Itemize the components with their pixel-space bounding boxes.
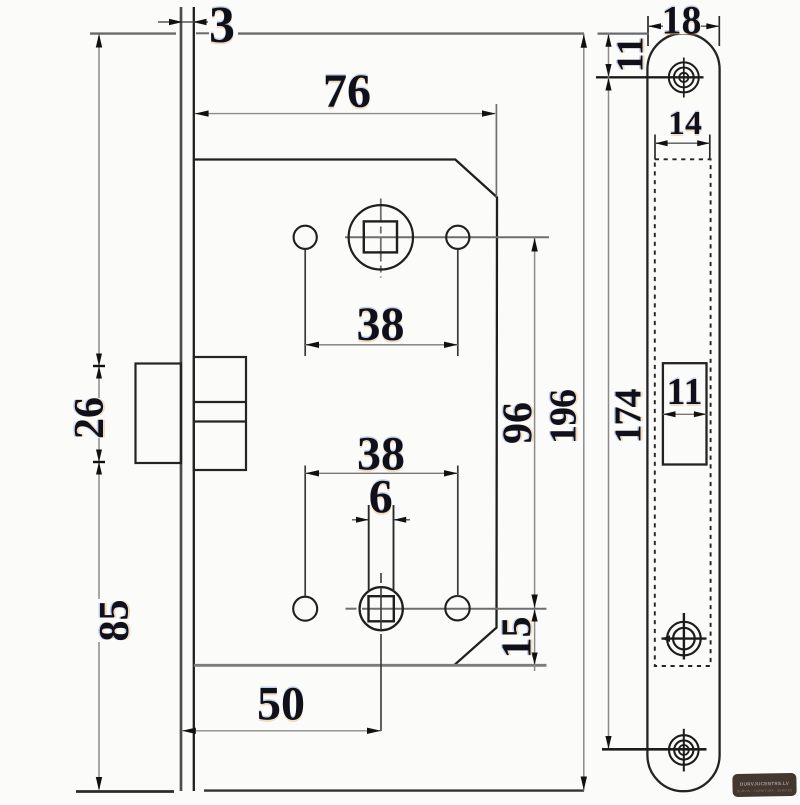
svg-text:38: 38 <box>357 298 405 351</box>
svg-text:6: 6 <box>369 471 393 524</box>
dimension 76 <box>195 65 497 197</box>
svg-text:174: 174 <box>608 389 650 444</box>
lower left hole <box>293 597 317 621</box>
dimension 14 <box>655 105 710 160</box>
upper holes centerline <box>345 199 549 278</box>
dimension 15 <box>495 609 541 671</box>
wc axis / 50 extension line <box>380 573 382 731</box>
lower 38 dimension <box>305 428 458 598</box>
upper left hole <box>294 226 317 249</box>
svg-text:50: 50 <box>257 678 305 731</box>
spindle square hole <box>364 221 397 252</box>
svg-text:76: 76 <box>323 65 371 118</box>
dimension 196 line <box>543 34 588 791</box>
svg-text:85: 85 <box>92 600 138 642</box>
svg-text:26: 26 <box>67 397 113 439</box>
svg-text:DURVJUCENTRS.LV: DURVJUCENTRS.LV <box>740 781 790 787</box>
dimension 6 <box>352 471 410 592</box>
top extension for 11 <box>598 32 649 34</box>
dimension 3 (faceplate thickness) <box>158 0 235 54</box>
faceplate front view <box>647 33 719 791</box>
svg-text:15: 15 <box>495 617 541 659</box>
faceplate dashed case outline <box>655 159 711 666</box>
dimension 174 line <box>602 77 707 749</box>
lower right hole <box>445 596 469 620</box>
svg-text:96: 96 <box>496 402 542 444</box>
dimension 18 <box>648 0 719 46</box>
dimension 11 (top) line <box>605 34 651 78</box>
dimension 50 <box>182 678 381 735</box>
label 85 <box>92 599 138 642</box>
top screw hole <box>596 58 704 98</box>
dimension 11 (latch window) <box>663 371 707 417</box>
lower holes centerline <box>346 608 547 610</box>
wc square hole <box>369 596 394 621</box>
latch bolt (protruding) <box>136 364 182 464</box>
dimension 96 line <box>496 237 542 608</box>
bottom extension line <box>76 789 584 793</box>
faceplate edge view <box>181 7 194 791</box>
middle screw hole <box>662 613 707 660</box>
left dimension chain line <box>93 34 105 791</box>
svg-text:3: 3 <box>209 0 235 54</box>
svg-text:18: 18 <box>662 0 702 43</box>
upper right hole <box>446 226 469 249</box>
lock body outline <box>194 160 547 666</box>
spindle hub circle <box>349 205 413 269</box>
svg-text:11: 11 <box>610 37 652 73</box>
svg-text:11: 11 <box>667 371 703 413</box>
svg-text:14: 14 <box>668 105 702 142</box>
latch window in faceplate <box>663 363 707 464</box>
label 26 <box>67 397 113 439</box>
watermark stamp <box>732 773 796 797</box>
bottom screw hole <box>669 729 699 772</box>
svg-text:196: 196 <box>543 390 585 444</box>
latch body inside case <box>194 357 246 470</box>
upper 38 dimension <box>305 250 458 357</box>
wc hub circle <box>360 587 403 630</box>
top extension line <box>90 32 584 35</box>
